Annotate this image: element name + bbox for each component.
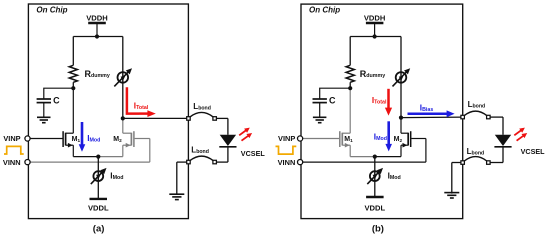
svg-text:M2: M2 xyxy=(113,136,122,143)
svg-text:VCSEL: VCSEL xyxy=(521,147,546,156)
svg-text:VDDL: VDDL xyxy=(364,204,385,213)
svg-text:On Chip: On Chip xyxy=(36,6,67,15)
svg-text:VDDL: VDDL xyxy=(88,204,109,213)
svg-text:M1: M1 xyxy=(72,136,81,143)
svg-text:VDDH: VDDH xyxy=(364,13,386,22)
svg-text:VDDH: VDDH xyxy=(86,13,108,22)
svg-text:On Chip: On Chip xyxy=(309,6,340,15)
svg-text:VCSEL: VCSEL xyxy=(241,149,266,158)
svg-text:VINN: VINN xyxy=(3,158,21,167)
svg-text:VINN: VINN xyxy=(278,158,296,167)
svg-text:(b): (b) xyxy=(372,223,384,234)
svg-text:VINP: VINP xyxy=(278,134,295,143)
svg-text:VINP: VINP xyxy=(3,134,20,143)
svg-text:C: C xyxy=(329,96,336,106)
svg-text:(a): (a) xyxy=(93,223,105,234)
svg-text:C: C xyxy=(53,96,60,106)
svg-text:M2: M2 xyxy=(394,136,403,143)
svg-text:M1: M1 xyxy=(344,136,353,143)
